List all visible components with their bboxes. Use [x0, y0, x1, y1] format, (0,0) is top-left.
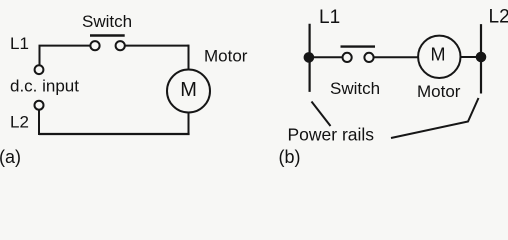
svg-text:Switch: Switch — [330, 79, 380, 98]
power rail right L2 — [480, 24, 482, 93]
motor M2 circle (panel b) — [418, 36, 460, 78]
switch contact circle right (panel b) — [364, 53, 373, 62]
svg-text:(a): (a) — [0, 147, 21, 167]
svg-text:L1: L1 — [10, 34, 29, 53]
wire right side down to motor — [188, 45, 190, 69]
svg-text:Switch: Switch — [82, 12, 132, 31]
svg-text:M: M — [180, 79, 197, 101]
terminal L1 input circle — [35, 65, 44, 74]
switch contact circle right (panel a) — [116, 41, 125, 50]
switch contact circle left (panel a) — [90, 41, 99, 50]
wire L2 terminal stub — [38, 110, 40, 135]
junction dot left rail — [304, 52, 315, 63]
switch contact circle left (panel b) — [343, 53, 352, 62]
leader line to right power rail — [391, 98, 479, 138]
svg-text:Motor: Motor — [204, 47, 248, 66]
wire rung from switch to motor — [374, 56, 418, 58]
wire top right segment — [125, 45, 188, 47]
motor M1 circle (panel a) — [167, 70, 210, 113]
svg-text:Power rails: Power rails — [288, 125, 375, 145]
svg-text:L1: L1 — [319, 7, 340, 28]
svg-text:M: M — [431, 44, 446, 64]
switch actuator bar (panel b) — [341, 45, 376, 47]
svg-text:(b): (b) — [279, 147, 301, 167]
wire L1 terminal stub — [39, 45, 41, 65]
junction dot right rail — [476, 52, 487, 63]
switch actuator bar (panel a) — [90, 34, 125, 36]
svg-text:L2: L2 — [10, 113, 29, 132]
power rail left L1 — [309, 24, 311, 92]
wire bottom segment — [39, 133, 190, 135]
wire top left segment — [39, 45, 91, 47]
leader line to left power rail — [312, 102, 331, 127]
wire motor bottom down — [188, 113, 190, 135]
svg-text:L2: L2 — [489, 7, 508, 28]
terminal L2 input circle — [35, 101, 44, 110]
wire rung from motor to right rail — [461, 56, 482, 58]
svg-text:d.c. input: d.c. input — [10, 77, 79, 96]
wire rung from left rail to switch — [310, 56, 342, 58]
svg-text:Motor: Motor — [417, 82, 461, 101]
